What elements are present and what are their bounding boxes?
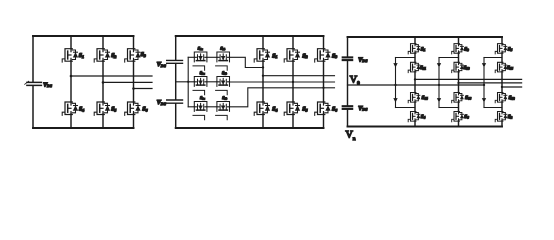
node phase a (c2) [262,75,264,77]
transistor S5 (c2) [284,102,299,115]
wire: phase a line (c3) [415,78,522,80]
wire: leg3 mid (c3) [501,72,503,93]
node phase b (c3) [457,82,459,84]
svg-text:S2: S2 [111,53,116,59]
transistor S33 (c3) [452,62,464,72]
wire: leg2 node1 (c3) [458,53,460,62]
wire: left rail lower (c2) [175,104,177,129]
wire: row A right link (c2) [230,57,264,67]
wire: leg1 mid (c1) [70,61,72,102]
transistor S1 (c1) [62,49,77,62]
transistor S5 (c3) [495,44,507,54]
wire: left rail middle (c2) [175,64,177,100]
capacitor VDC lower (c2) [167,100,183,103]
wire: leg3 source stub (c2) [323,114,325,128]
svg-text:S2: S2 [508,114,513,120]
svg-text:VDC: VDC [358,57,368,63]
wire: phase b output (c1) [103,81,152,83]
wire: leg2 source stub (c3) [458,121,460,127]
clamp diode D3 lower (c3) [482,99,485,102]
wire: leg3 source stub (c3) [501,121,503,127]
svg-text:S66: S66 [465,95,471,101]
transistor S1 (c2) [254,49,269,62]
wire: phase c out (c2) [324,87,335,89]
svg-text:S2a: S2a [200,70,206,76]
wire: row C middle (c2) [207,106,217,108]
node bus tap (c2) [187,81,189,83]
transistor S2b (c2) [216,77,230,95]
svg-text:S2: S2 [302,53,307,59]
wire: leg1 drain stub (c1) [70,36,72,49]
wire: leg2 mid (c1) [102,61,104,102]
svg-text:S3: S3 [141,52,146,58]
transistor S4 (c2) [254,102,269,115]
svg-text:S2b: S2b [222,70,228,76]
wire: leg3 node1 (c3) [501,53,503,62]
svg-text:S5: S5 [508,46,513,52]
wire: top DC rail (c3) [348,36,503,38]
transistor S3 (c3) [452,44,464,54]
svg-text:S5: S5 [111,107,116,113]
transistor S22 (c3) [495,93,507,103]
clamp diode D1 lower (c3) [394,99,397,102]
node phase c (c1) [132,87,135,90]
svg-text:S6: S6 [142,107,147,113]
svg-text:VDC: VDC [157,100,167,106]
svg-text:S3a: S3a [200,95,206,101]
wire: leg1 node1 (c3) [414,53,416,62]
clamp diode D2 upper (c3) [437,64,440,67]
capacitor VDC upper (c3) [343,57,353,60]
svg-text:S4: S4 [272,107,277,113]
svg-text:Vn: Vn [346,130,356,142]
wire: leg1 source stub (c2) [262,114,264,128]
wire: neutral tap (c2) [176,81,195,83]
transistor S3 (c1) [125,49,140,62]
node phase c (c2) [322,87,324,89]
transistor S55 (c3) [495,62,507,72]
transistor S1b (c2) [216,52,230,70]
wire: phase a output (c1) [71,75,152,77]
wire: top DC rail (c2) [176,35,324,37]
svg-text:VDC: VDC [358,106,368,112]
wire: leg3 mid (c1) [133,61,135,102]
wire: leg1 drain stub (c3) [414,37,416,44]
node neutral-bus2 (c3) [438,84,440,86]
transistor S6 (c2) [315,102,330,115]
transistor S4 (c1) [62,102,77,115]
wire: leg3 drain stub (c2) [323,36,325,49]
wire: leg2 drain stub (c3) [458,37,460,44]
transistor S2 (c2) [284,49,299,62]
svg-text:S11: S11 [420,65,426,71]
clamp diode D3 upper (c3) [482,64,485,67]
transistor S3 (c2) [315,49,330,62]
svg-text:VDC: VDC [157,62,167,68]
node phase a (c3) [414,78,416,80]
svg-text:S1b: S1b [220,46,226,52]
svg-text:S5: S5 [302,107,307,113]
transistor S6 (c1) [125,102,140,115]
wire: leg2 drain stub (c1) [102,36,104,49]
wire: leg2 source stub (c1) [102,114,104,128]
wire: left rail upper (c2) [175,36,177,60]
transistor S5 (c1) [94,102,109,115]
transistor S4 (c3) [408,112,420,122]
clamp bus leg3 (c3) [484,58,502,108]
svg-text:S1: S1 [79,53,84,59]
wire: phase c line (c3) [502,86,522,88]
wire: left rail lower (c3) [347,109,349,127]
wire: leg3 mid (c2) [323,61,325,102]
wire: neutral line V0 (c3) [348,84,485,86]
clamp diode D2 lower (c3) [437,99,440,102]
transistor S3b (c2) [216,102,230,120]
svg-text:S22: S22 [509,95,515,101]
transistor S3a (c2) [193,102,207,120]
wire: left rail upper (c3) [347,37,349,57]
wire: leg1 mid (c3) [414,72,416,93]
wire: phase a line (c2) [263,75,335,77]
clamp diode D1 upper (c3) [394,64,397,67]
transistor S2 (c3) [495,112,507,122]
svg-text:S3b: S3b [222,95,228,101]
wire: row A left (c2) [188,56,194,58]
node phase a (c1) [70,75,73,78]
svg-text:S1: S1 [421,46,426,52]
wire: leg2 node2 (c3) [458,102,460,112]
wire: leg3 drain stub (c1) [133,36,135,49]
clamp bus leg1 (c3) [396,58,416,108]
transistor S11 (c3) [408,62,420,72]
svg-text:S4: S4 [421,114,426,120]
transistor S2 (c1) [94,49,109,62]
node phase b (c1) [102,81,105,84]
capacitor VDC (c1) [25,81,42,85]
svg-text:S4: S4 [79,107,84,113]
wire: matrix bus vertical (c2) [187,57,189,107]
transistor S1 (c3) [408,44,420,54]
svg-text:S3: S3 [332,53,337,59]
wire: left rail lower [32,86,34,128]
node phase b (c2) [292,81,294,83]
wire: row C left (c2) [188,106,194,108]
transistor S1a (c2) [193,52,207,70]
wire: leg2 mid (c2) [292,61,294,102]
transistor S6 (c3) [452,112,464,122]
wire: leg1 node2 (c3) [414,102,416,112]
wire: leg3 source stub (c1) [133,114,135,128]
wire: leg1 source stub (c1) [70,114,72,128]
wire: top DC rail [33,35,134,37]
transistor S2a (c2) [193,77,207,95]
node phase c (c3) [501,86,503,88]
wire: leg1 source stub (c3) [414,121,416,127]
node neutral-bus1 (c3) [394,84,396,86]
svg-text:S33: S33 [464,65,470,71]
wire: bottom DC rail (c3) [348,126,503,128]
transistor S66 (c3) [452,93,464,103]
svg-text:VDC: VDC [43,82,52,88]
wire: leg3 drain stub (c3) [501,37,503,44]
wire: leg2 mid (c3) [458,72,460,93]
wire: leg2 drain stub (c2) [292,36,294,49]
wire: bottom DC rail (c2) [176,127,324,129]
svg-text:S44: S44 [422,95,428,101]
wire: leg2 source stub (c2) [292,114,294,128]
wire: row A middle (c2) [207,56,217,58]
wire: row B right / phase b line (c2) [230,81,335,83]
capacitor VDC upper (c2) [167,60,183,63]
wire: left rail middle (c3) [347,61,349,106]
svg-text:S6: S6 [332,107,337,113]
wire: phase c output (c1) [134,88,153,90]
node neutral-bus3 (c3) [483,84,485,86]
capacitor VDC lower (c3) [343,106,353,109]
wire: bottom DC rail [33,127,134,129]
clamp bus leg2 (c3) [439,58,459,108]
wire: leg1 drain stub (c2) [262,36,264,49]
transistor S44 (c3) [408,93,420,103]
wire: leg1 mid (c2) [262,61,264,102]
svg-text:S1: S1 [272,53,277,59]
wire: phase b line (c3) [459,82,522,84]
svg-text:S3: S3 [464,46,469,52]
wire: leg3 node2 (c3) [501,102,503,112]
wire: left rail upper [32,36,34,82]
svg-text:S1a: S1a [198,46,204,52]
node row A to leg1 (c2) [262,66,264,68]
svg-text:S55: S55 [507,65,513,71]
wire: row B middle (c2) [207,81,217,83]
svg-text:S6: S6 [464,114,469,120]
wire: row C right link (c2) [230,88,324,107]
